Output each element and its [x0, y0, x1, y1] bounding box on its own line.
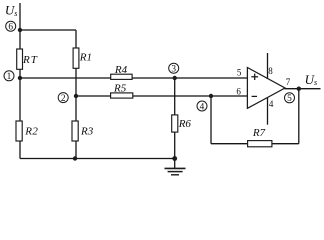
junction at node 4 feedback tap	[209, 94, 213, 98]
wire: output horizontal pin 7	[285, 88, 321, 90]
wire: pin 4 vertical	[267, 98, 269, 125]
resistor R6	[172, 115, 178, 132]
resistor R1	[73, 48, 79, 68]
op-amp U1 triangle	[247, 68, 285, 109]
svg-text:7: 7	[286, 77, 291, 87]
svg-text:2: 2	[61, 94, 66, 104]
node 3 circled	[169, 63, 179, 73]
ground	[165, 168, 186, 174]
svg-text:R6: R6	[178, 118, 192, 130]
junction at node 2	[74, 94, 78, 98]
junction output node 5	[297, 87, 301, 91]
wire: node 1 horizontal to op-amp pin 5	[20, 77, 247, 79]
svg-text:RT: RT	[22, 54, 38, 66]
svg-text:4: 4	[269, 99, 274, 109]
wire: feedback left vertical	[210, 96, 212, 144]
node 5 circled	[285, 93, 295, 103]
wire: main left vertical from Us top to bottom rail	[19, 3, 21, 159]
node 1 circled	[4, 71, 14, 81]
svg-text:8: 8	[268, 66, 273, 76]
wire: R7 feedback horizontal	[211, 143, 299, 145]
resistor R4	[111, 74, 132, 79]
svg-text:6: 6	[236, 87, 241, 97]
wire: node 2 horizontal to op-amp pin 6	[76, 95, 247, 97]
svg-text:R3: R3	[80, 126, 94, 138]
resistor R3	[72, 121, 78, 141]
junction at node 6	[18, 28, 22, 32]
svg-text:R4: R4	[114, 64, 128, 76]
junction ground rail	[172, 156, 177, 161]
svg-text:Us: Us	[5, 3, 18, 18]
svg-text:4: 4	[200, 102, 205, 112]
resistor R2	[16, 121, 22, 141]
wire: R6 branch vertical to ground	[174, 78, 176, 168]
node 4 circled	[197, 101, 207, 111]
junction R3 bottom rail	[73, 156, 77, 160]
svg-text:R1: R1	[79, 51, 92, 63]
svg-text:1: 1	[7, 72, 12, 82]
svg-text:5: 5	[237, 67, 242, 77]
svg-text:5: 5	[287, 94, 292, 104]
svg-text:Us: Us	[305, 72, 318, 87]
junction at node 1	[18, 76, 22, 80]
resistor R7	[248, 141, 272, 147]
resistor RT	[17, 49, 23, 69]
resistor R5	[111, 93, 133, 98]
wire: feedback right vertical	[298, 89, 300, 144]
wire: top horizontal node 6 to R1 branch	[20, 29, 76, 31]
wire: pin 8 vertical	[267, 53, 269, 79]
svg-text:3: 3	[171, 65, 176, 75]
op-amp plus input sign	[251, 74, 258, 80]
svg-text:R5: R5	[113, 82, 127, 94]
op-amp minus input sign	[252, 95, 257, 97]
node 6 circled	[6, 21, 16, 31]
junction at node 3	[173, 76, 177, 80]
wire: R1/R3 branch vertical	[75, 30, 77, 159]
node 2 circled	[58, 93, 68, 103]
wire: bottom rail	[20, 158, 175, 160]
svg-text:R7: R7	[252, 127, 266, 139]
svg-text:R2: R2	[24, 126, 38, 138]
svg-text:6: 6	[8, 23, 13, 33]
